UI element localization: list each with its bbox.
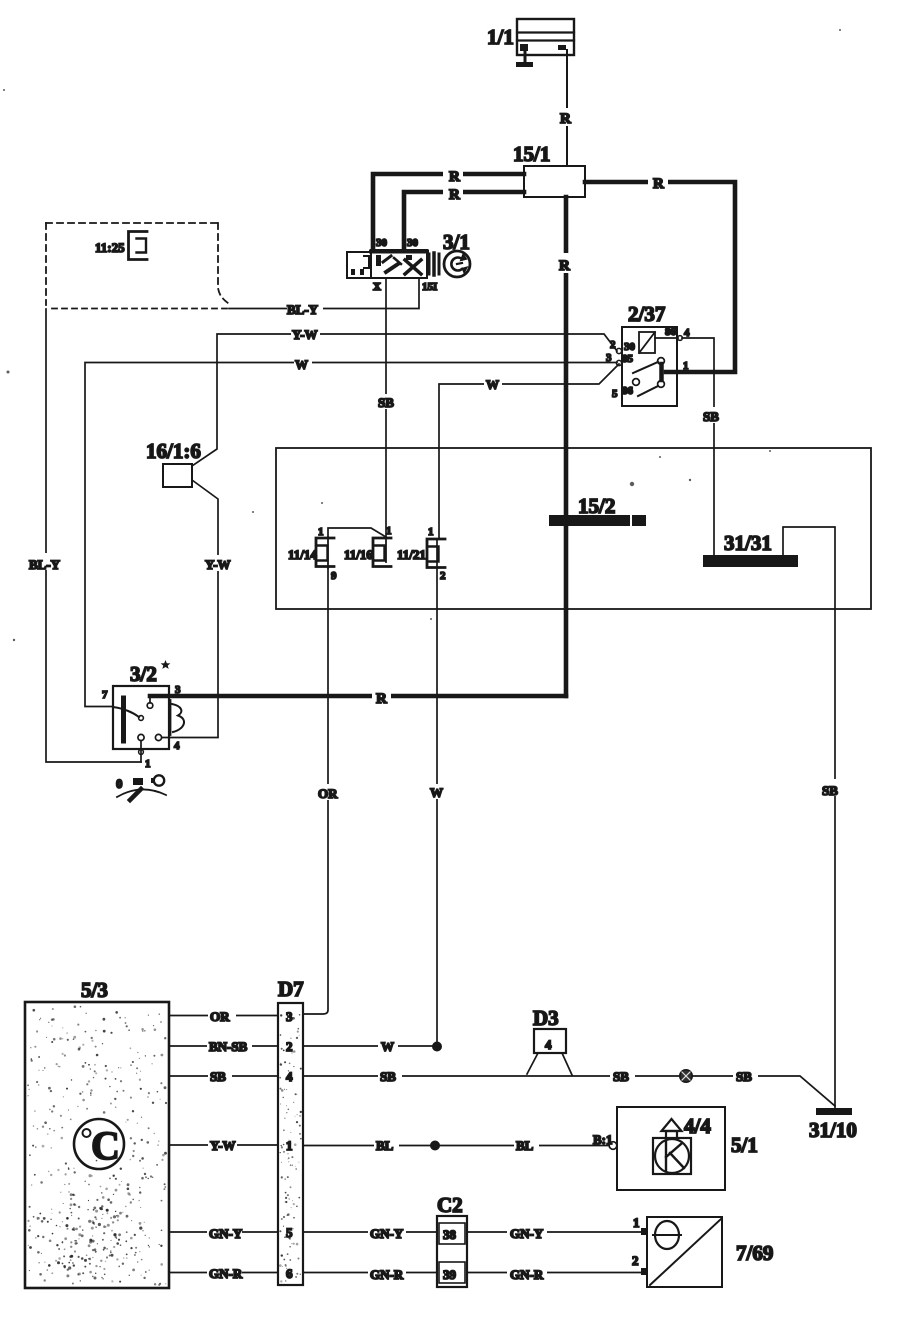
svg-text:Y-W: Y-W [210,1138,236,1153]
wire W 11/21 down to junction [427,539,446,1046]
wire SB 11/14 to 11/16 [328,528,386,537]
svg-text:2: 2 [632,1253,639,1268]
wire BL-Y ignition 15I to connector 11:25 [229,278,419,317]
svg-text:SB: SB [822,783,838,798]
svg-text:OR: OR [210,1009,230,1024]
svg-text:39: 39 [443,1267,457,1282]
svg-text:GN-Y: GN-Y [510,1226,544,1241]
ignition switch 3/1 [347,230,470,293]
svg-text:2: 2 [610,339,616,351]
svg-text:1: 1 [145,758,151,770]
relay 2/37 [606,302,690,406]
wire GN-Y 5/3 to D7 pin 5 [169,1224,278,1241]
svg-text:SB: SB [703,409,719,424]
wire R 15/1 to ignition switch terminal 30 (lower) [404,184,524,250]
wire SB relay 2/37 pin 4 to ground bus 31/31 [682,338,723,555]
svg-text:SB: SB [613,1069,629,1084]
connector D7 [278,977,304,1285]
svg-text:11:25: 11:25 [95,240,125,255]
wire SB D7 pin 4 to ground 31/10 [303,1068,835,1106]
svg-text:BL-Y: BL-Y [287,302,319,317]
svg-text:W: W [430,785,443,800]
svg-text:D3: D3 [533,1006,559,1030]
svg-text:SB: SB [378,395,394,410]
junction W [432,1042,442,1052]
svg-text:Y-W: Y-W [292,327,318,342]
svg-text:30: 30 [376,237,388,249]
svg-text:GN-R: GN-R [209,1266,243,1281]
climate control unit 5/3 [25,978,169,1288]
svg-text:4: 4 [174,740,180,752]
wire Y-W 5/3 to D7 pin 1 [169,1136,278,1153]
wire GN-R C2 to lamp 7/69 pin 2 [467,1265,647,1282]
svg-text:GN-R: GN-R [370,1267,404,1282]
svg-text:2/37: 2/37 [628,302,665,326]
wire OR 5/3 to D7 pin 3 [169,1007,278,1024]
svg-text:SB: SB [380,1069,396,1084]
temperature symbol [74,1119,124,1169]
svg-text:R: R [449,187,460,203]
svg-text:1: 1 [386,525,392,537]
svg-text:4: 4 [286,1069,293,1084]
svg-text:86: 86 [622,385,634,397]
svg-text:86: 86 [665,326,677,338]
svg-text:4/4: 4/4 [684,1114,711,1138]
svg-text:R: R [653,176,664,192]
svg-text:3/2: 3/2 [130,662,157,686]
svg-text:3: 3 [286,1009,293,1024]
svg-text:3/1: 3/1 [443,230,470,254]
svg-text:R: R [376,691,387,707]
blower fan 5/1 [593,1107,758,1190]
svg-text:C2: C2 [437,1193,463,1217]
svg-text:16/1:6: 16/1:6 [146,439,201,463]
wire GN-Y C2 to lamp 7/69 pin 1 [467,1224,647,1241]
wire R 15/1 to ignition switch terminal 30 (upper) [373,165,524,250]
wire GN-R D7 pin 6 to C2 pin 39 [303,1265,437,1282]
svg-text:11/14: 11/14 [288,547,317,562]
wire OR 11/14 to connector D7 pin 3 [303,567,342,1014]
wire SB ignition X to connector 11/16 [377,278,397,536]
svg-text:2: 2 [286,1039,293,1054]
svg-text:W: W [295,357,308,372]
wire W relay 2/37 pin 3 to switch 3/2 pin 7 [85,356,617,707]
connector 11/16 [344,525,392,567]
svg-text:1: 1 [633,1215,640,1230]
svg-text:3: 3 [175,684,181,696]
connector 11:25 (dashed harness box) [46,223,229,309]
wire GN-Y D7 pin 5 to C2 pin 38 [303,1224,437,1241]
wire BL-Y down left side to switch 3/2 pin 1 [28,309,141,762]
svg-text:BN-SB: BN-SB [209,1039,248,1054]
svg-text:11/21: 11/21 [397,547,426,562]
svg-text:BL-Y: BL-Y [29,557,61,572]
svg-text:R: R [449,169,460,185]
svg-text:R: R [559,258,570,274]
junction BL [430,1141,440,1151]
fuse 15/2 [549,494,646,526]
switch 3/2 [102,660,184,770]
svg-text:W: W [486,377,499,392]
svg-text:GN-R: GN-R [510,1267,544,1282]
wire Y-W relay 2/37 pin 2 to connector 16/1:6 [192,325,617,466]
svg-text:1: 1 [683,360,689,372]
splice on SB wire [680,1070,692,1082]
svg-text:1: 1 [428,526,434,538]
svg-text:5/3: 5/3 [81,978,108,1002]
fuse box 15/1 [513,142,585,197]
ground bus 31/31 [703,531,798,567]
svg-text:Y-W: Y-W [205,557,231,572]
wire R 15/1 down to fuse 15/2 and switch 3/2 pin 3 [150,197,576,707]
svg-text:D7: D7 [278,977,304,1001]
svg-text:GN-Y: GN-Y [370,1226,404,1241]
wire W relay 2/37 pin 3 to connector 11/21 [439,364,619,539]
svg-text:30: 30 [624,341,636,353]
svg-text:15/1: 15/1 [513,142,550,166]
rotary position symbol under 3/2 [116,775,166,800]
connector D3 [527,1006,572,1075]
wire BN-SB 5/3 to D7 pin 2 [169,1037,278,1054]
svg-text:2: 2 [440,570,446,582]
svg-text:C: C [91,1123,120,1168]
svg-text:1: 1 [318,526,324,538]
wire BL D7 pin 1 to blower resistor 5/1 pin B:1 [303,1137,609,1153]
wire R 15/1 to relay 2/37 pin 1 [585,172,735,372]
svg-text:7: 7 [102,689,108,701]
svg-text:31/10: 31/10 [809,1118,857,1142]
svg-text:7/69: 7/69 [736,1241,773,1265]
wire R battery to fuse 15/1 [557,50,575,166]
svg-text:BL: BL [376,1138,394,1153]
svg-text:5/1: 5/1 [731,1133,758,1157]
svg-text:SB: SB [736,1069,752,1084]
svg-text:0: 0 [116,776,123,791]
wire Y-W 16/1:6 to switch 3/2 pin 4 [162,480,233,738]
wire W D7 pin 2 to junction [303,1038,434,1054]
svg-text:BL: BL [516,1138,534,1153]
svg-text:4: 4 [545,1037,552,1052]
connector 11/21 [397,526,446,582]
wire GN-R 5/3 to D7 pin 6 [169,1264,278,1281]
ground 31/10 [809,1108,857,1142]
svg-text:W: W [381,1039,394,1054]
svg-text:30: 30 [407,237,419,249]
svg-text:31/31: 31/31 [724,531,772,555]
connector C2 [437,1193,467,1287]
svg-text:X: X [373,281,381,293]
svg-text:15I: 15I [422,281,437,293]
svg-text:3: 3 [606,352,612,364]
battery 1/1 [487,19,574,55]
svg-text:1/1: 1/1 [487,25,514,49]
svg-text:38: 38 [443,1227,457,1242]
svg-text:85: 85 [622,353,634,365]
ground (battery 1/1) [516,51,533,67]
instrument connector 16/1:6 [146,439,201,487]
svg-text:5: 5 [612,388,618,400]
wire SB 31/31 to ground 31/10 [783,527,846,1108]
svg-text:R: R [560,111,571,127]
svg-text:11/16: 11/16 [344,547,373,562]
svg-text:OR: OR [318,786,338,801]
wire SB 5/3 to D7 pin 4 [169,1067,278,1084]
svg-text:9: 9 [331,570,337,582]
connector 11/14 [288,526,337,582]
control illumination 7/69 [632,1215,773,1287]
central fuse/relay box outline [276,448,871,609]
svg-text:GN-Y: GN-Y [209,1226,243,1241]
svg-text:SB: SB [210,1069,226,1084]
svg-text:15/2: 15/2 [578,494,615,518]
